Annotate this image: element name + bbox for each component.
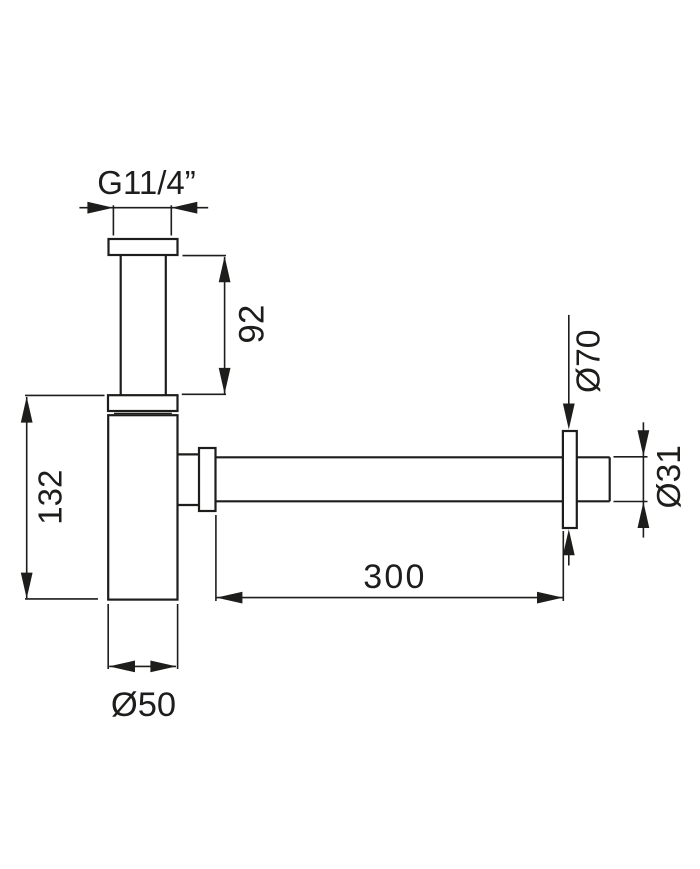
svg-text:Ø50: Ø50: [111, 686, 176, 724]
arrow 132 down: [21, 573, 33, 599]
top flange: [109, 239, 178, 255]
outlet stub top: [178, 453, 200, 455]
dim D50 line: [109, 665, 176, 667]
inlet pipe left wall: [120, 255, 122, 395]
svg-text:300: 300: [363, 558, 426, 596]
arrow 300 left: [216, 592, 242, 604]
horizontal pipe bottom: [216, 500, 563, 502]
dim D50 ext right: [177, 604, 179, 669]
dim D31 line: [642, 422, 644, 537]
pipe end cap: [609, 457, 611, 501]
arrow 132 up: [21, 397, 33, 423]
dim 300 ext right: [562, 531, 564, 601]
arrow D31 down: [638, 430, 650, 456]
outlet nut: [199, 448, 216, 511]
dim 132 ext top: [25, 394, 105, 396]
svg-text:G11/4”: G11/4”: [97, 164, 195, 201]
gasket line: [114, 412, 172, 414]
dim D31 ext top: [614, 456, 648, 458]
dim G11/4 line: [79, 207, 208, 209]
dim 92 ext top: [183, 255, 227, 257]
arrow D70 up: [563, 529, 575, 555]
dim G11/4 ext right: [170, 205, 172, 235]
dim 132 ext bottom: [25, 598, 98, 600]
svg-text:Ø70: Ø70: [571, 330, 608, 393]
dim D70 upper line: [568, 315, 570, 405]
trap body cup: [108, 415, 177, 599]
arrow D50 right: [150, 661, 176, 673]
arrow G11/4 right: [171, 202, 197, 214]
dim D50 ext left: [107, 604, 109, 669]
dim D31 ext bottom: [614, 501, 648, 503]
arrow G11/4 left: [87, 202, 113, 214]
dim 300 ext left: [215, 515, 217, 601]
inlet pipe right wall: [165, 255, 167, 395]
dim D70 lower tail: [568, 554, 570, 566]
arrow D70 down: [563, 404, 575, 430]
wall flange: [563, 431, 577, 528]
arrow D31 up: [638, 502, 650, 528]
dim G11/4 ext left: [112, 205, 114, 235]
arrow 92 up: [219, 256, 231, 282]
outlet stub bottom: [178, 504, 200, 506]
dim 132 line: [26, 397, 28, 598]
horizontal pipe top: [216, 456, 563, 458]
svg-text:92: 92: [232, 305, 271, 344]
arrow D50 left: [109, 661, 135, 673]
svg-text:Ø31: Ø31: [651, 445, 688, 508]
dim 92 line: [224, 257, 226, 394]
arrow 92 down: [219, 368, 231, 394]
arrow 300 right: [537, 592, 563, 604]
pipe tail bottom: [577, 500, 610, 502]
svg-text:132: 132: [32, 470, 69, 525]
dim 300 line: [216, 597, 563, 599]
pipe tail top: [577, 456, 610, 458]
dim 92 ext bottom: [182, 393, 226, 395]
body top nut: [108, 395, 178, 411]
